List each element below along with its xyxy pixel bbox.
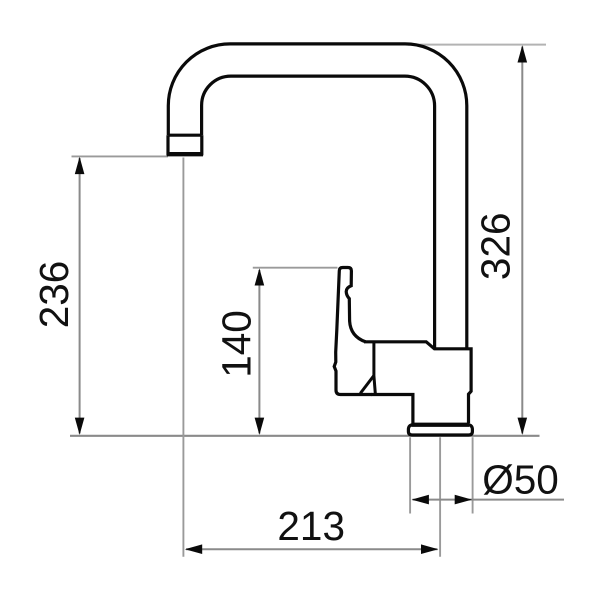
dimension line O50	[413, 499, 565, 501]
arrowhead O50 left	[412, 495, 429, 505]
arrowhead 236 up	[75, 157, 85, 174]
aerator bottom edge (thick)	[167, 152, 203, 156]
svg-text:140: 140	[214, 310, 260, 378]
extension line top (spout top to 326 dim)	[408, 44, 546, 46]
svg-text:236: 236	[31, 261, 77, 329]
svg-text:Ø50: Ø50	[482, 457, 559, 503]
arrowhead O50 right	[455, 495, 472, 505]
body front vertical line	[374, 343, 375, 394]
svg-text:326: 326	[473, 213, 519, 281]
handle (lever) outline	[334, 268, 371, 395]
dimension line 326	[521, 47, 523, 434]
extension line base right edge (O50)	[472, 437, 474, 513]
arrowhead 326 up	[518, 45, 528, 62]
svg-text:213: 213	[277, 503, 345, 549]
base flange	[408, 424, 472, 435]
body front diagonal line	[360, 376, 373, 394]
dimension line 140	[258, 270, 260, 434]
arrowhead 236 down	[75, 418, 85, 435]
dimension line 213	[186, 548, 438, 550]
arrowhead 140 up	[255, 268, 265, 285]
faucet spout outer contour	[168, 44, 467, 349]
arrowhead 140 down	[255, 418, 265, 435]
extension line 140 top (handle top level)	[253, 267, 338, 269]
arrowhead 326 down	[518, 418, 528, 435]
extension line 236 top (spout tip level)	[72, 155, 169, 157]
extension line center of base down to 213	[439, 437, 441, 557]
arrowhead 213 right	[421, 544, 438, 554]
arrowhead 213 left	[185, 544, 202, 554]
faucet spout inner contour	[202, 76, 435, 348]
extension line left vertical (spout tip down to 213)	[182, 158, 184, 557]
baseline (deck line)	[70, 435, 540, 437]
body bottom and neck left	[371, 395, 413, 424]
body outline	[364, 342, 471, 423]
extension line base left edge (O50)	[409, 437, 411, 513]
aerator tip box	[168, 135, 202, 154]
dimension line 236	[79, 158, 81, 434]
base flange top edge (thick)	[412, 423, 470, 427]
